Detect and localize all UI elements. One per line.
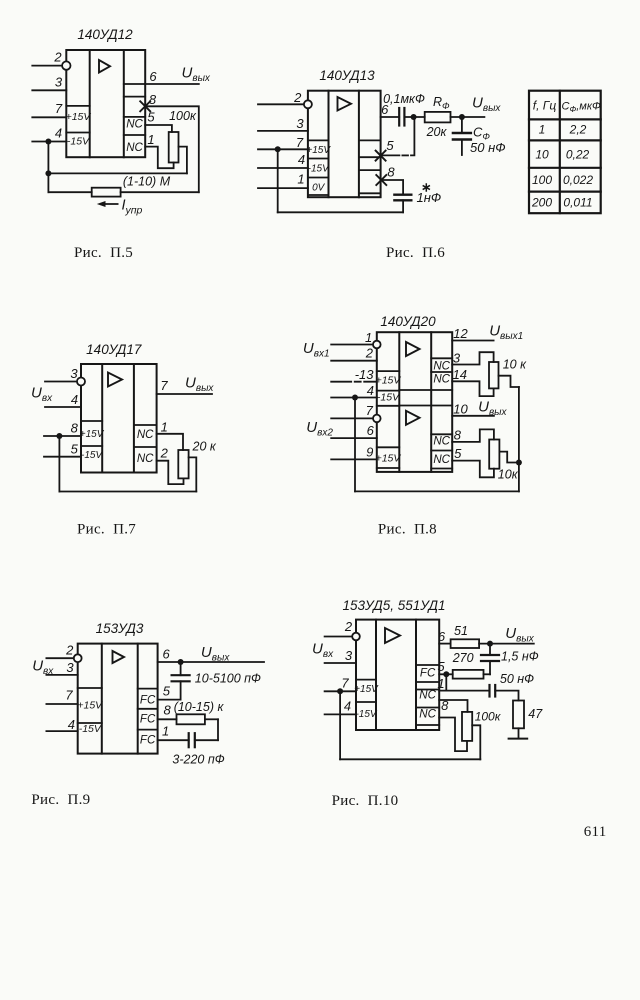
svg-text:3: 3 xyxy=(345,648,353,663)
pin 7 input wire xyxy=(32,101,66,117)
svg-text:10 к: 10 к xyxy=(503,357,527,371)
pin 1 wire xyxy=(437,676,489,691)
+15V box xyxy=(306,140,331,158)
svg-text:10: 10 xyxy=(453,402,468,417)
svg-text:4: 4 xyxy=(68,717,75,732)
table frame xyxy=(529,91,601,214)
svg-text:153УД5, 551УД1: 153УД5, 551УД1 xyxy=(343,598,446,613)
svg-text:1нФ: 1нФ xyxy=(417,190,442,205)
svg-text:2: 2 xyxy=(293,90,302,105)
svg-text:1,5 нФ: 1,5 нФ xyxy=(501,650,539,664)
svg-text:NC: NC xyxy=(433,361,450,373)
svg-text:NC: NC xyxy=(126,119,143,131)
op-amp U3 triangle xyxy=(108,373,122,387)
right rail wire xyxy=(518,387,520,491)
svg-text:-15V: -15V xyxy=(377,392,400,404)
wire pin 5 feedback xyxy=(381,154,400,156)
-15V box xyxy=(377,391,400,406)
svg-text:+15V: +15V xyxy=(66,111,92,123)
resistor (1-10)М xyxy=(48,175,198,197)
capacitor Сф 50нФ xyxy=(453,117,506,155)
wire joining R and C xyxy=(217,719,219,740)
svg-text:5: 5 xyxy=(437,659,445,674)
wire pin 5 to pin 1 xyxy=(445,674,447,690)
svg-text:NC: NC xyxy=(126,142,143,154)
+15V box xyxy=(80,421,105,446)
svg-text:1: 1 xyxy=(539,123,546,137)
wire pin 14 to resistor R1 bottom xyxy=(452,367,493,396)
capacitor 3-220 пФ xyxy=(172,733,224,766)
wiper tap of 100к xyxy=(179,147,187,174)
svg-text:0,011: 0,011 xyxy=(563,196,592,210)
svg-text:4: 4 xyxy=(344,699,351,714)
pin 3 input wire xyxy=(32,75,66,91)
op-amp U5 body xyxy=(78,644,158,754)
junction on pin 4 xyxy=(45,139,51,145)
pin 2 input wire xyxy=(331,346,377,361)
svg-text:6: 6 xyxy=(438,629,446,644)
svg-text:Рис. П.5: Рис. П.5 xyxy=(74,245,133,261)
svg-text:4: 4 xyxy=(367,383,374,398)
svg-text:8: 8 xyxy=(387,165,395,180)
pin 7 input wire xyxy=(325,676,356,692)
pin 8 cross mark xyxy=(376,165,395,186)
wire pin 3 to resistor R1 xyxy=(452,351,493,366)
table row 2 xyxy=(535,148,589,162)
svg-text:2: 2 xyxy=(53,50,62,65)
op-amp U2 triangle xyxy=(338,97,352,111)
junction on pin 6 xyxy=(178,659,184,665)
pin 2 input wire xyxy=(46,643,81,663)
common rail wire xyxy=(48,142,187,193)
junction on rail xyxy=(45,170,51,176)
svg-text:10к: 10к xyxy=(498,468,519,482)
wire Rф to output xyxy=(451,116,485,118)
ground xyxy=(509,728,528,738)
svg-text:Uвых: Uвых xyxy=(182,65,211,85)
pin 8 box xyxy=(359,170,381,193)
junction on right rail xyxy=(516,460,522,466)
op-amp U5 triangle xyxy=(113,651,125,663)
resistor Rф 20к xyxy=(425,95,451,139)
resistor R2 10к xyxy=(489,440,519,482)
+15V box xyxy=(376,371,402,386)
svg-text:+15V: +15V xyxy=(80,429,105,440)
svg-text:140УД12: 140УД12 xyxy=(77,27,133,42)
svg-text:0V: 0V xyxy=(312,183,326,194)
svg-text:7: 7 xyxy=(366,403,374,418)
resistor (10-15)к xyxy=(174,700,225,724)
svg-text:Рис. П.10: Рис. П.10 xyxy=(332,793,399,809)
pin 3 input wire xyxy=(325,648,356,663)
svg-text:NC: NC xyxy=(137,453,154,465)
pin 7 input wire xyxy=(331,403,380,422)
svg-text:50 нФ: 50 нФ xyxy=(500,672,534,686)
svg-text:Рис. П.9: Рис. П.9 xyxy=(31,792,90,808)
op-amp U1 body xyxy=(66,50,145,157)
svg-text:47: 47 xyxy=(528,707,543,721)
svg-text:1: 1 xyxy=(147,132,154,147)
wire pin 8 to resistor R2 xyxy=(452,427,494,442)
svg-text:-13: -13 xyxy=(355,367,375,382)
svg-text:NC: NC xyxy=(419,709,436,721)
common rail wire xyxy=(59,436,196,492)
svg-text:4: 4 xyxy=(71,392,78,407)
common rail wire xyxy=(340,691,480,759)
resistor 47 xyxy=(513,701,543,729)
pin 3 input wire xyxy=(258,116,308,131)
pin 7 input wire xyxy=(258,135,308,150)
wiper tap of 100к xyxy=(472,725,480,759)
pin 6 output wire xyxy=(145,69,199,84)
svg-text:5: 5 xyxy=(386,138,394,153)
svg-text:140УД17: 140УД17 xyxy=(86,342,142,357)
svg-text:Рис. П.6: Рис. П.6 xyxy=(386,245,445,261)
pin 9 input wire xyxy=(331,444,377,459)
pin 2 input wire xyxy=(325,619,360,640)
pin 13 input wire xyxy=(331,367,377,382)
lower +15V box xyxy=(376,447,402,468)
svg-text:NC: NC xyxy=(137,429,154,441)
pin 3 input wire xyxy=(45,366,85,386)
pin 6 output wire xyxy=(381,102,400,117)
wire pin 1 to resistor bottom xyxy=(145,132,173,168)
svg-text:3: 3 xyxy=(55,75,63,90)
pin 4 input wire xyxy=(32,126,66,142)
svg-text:FC: FC xyxy=(140,714,156,726)
svg-text:1: 1 xyxy=(437,676,444,691)
svg-text:5: 5 xyxy=(454,446,462,461)
pin 4 input wire xyxy=(258,152,308,168)
resistor 51 xyxy=(451,624,534,648)
svg-text:10-5100 пФ: 10-5100 пФ xyxy=(195,672,261,686)
svg-text:Рис. П.8: Рис. П.8 xyxy=(378,522,437,538)
+15V box xyxy=(77,688,103,723)
svg-text:0,22: 0,22 xyxy=(566,148,590,162)
svg-text:7: 7 xyxy=(65,688,73,703)
svg-text:3-220 пФ: 3-220 пФ xyxy=(172,753,224,767)
NC boxes upper xyxy=(431,358,452,385)
svg-text:153УД3: 153УД3 xyxy=(96,621,144,636)
svg-text:2: 2 xyxy=(365,346,374,361)
NC boxes lower xyxy=(431,434,452,468)
svg-text:7: 7 xyxy=(160,378,168,393)
svg-text:8: 8 xyxy=(454,427,462,442)
svg-text:140УД13: 140УД13 xyxy=(319,68,375,83)
common rail wire xyxy=(278,149,403,212)
wire cap to Rф xyxy=(404,116,424,118)
wire pin 1 xyxy=(158,724,189,741)
wiper tap of 20к xyxy=(189,457,197,491)
table row 1 xyxy=(539,123,587,137)
pin 7 input wire xyxy=(46,688,77,705)
svg-text:10: 10 xyxy=(535,148,549,162)
resistor R1 10к xyxy=(489,357,527,388)
svg-text:NC: NC xyxy=(433,436,450,448)
svg-text:NC: NC xyxy=(433,454,450,466)
svg-text:2: 2 xyxy=(160,446,169,461)
svg-text:+15V: +15V xyxy=(77,700,103,712)
wiper tap of R1 xyxy=(499,376,519,387)
pin 2 input wire xyxy=(258,90,312,108)
pin 2 input wire xyxy=(32,50,70,70)
svg-text:+15V: +15V xyxy=(354,684,379,695)
svg-text:Uвых1: Uвых1 xyxy=(489,323,523,343)
svg-text:3: 3 xyxy=(66,660,74,675)
pin 8 wire to 100к bottom xyxy=(439,698,467,751)
svg-text:Uвх1: Uвх1 xyxy=(303,340,330,360)
svg-text:RФ: RФ xyxy=(433,95,450,112)
wire pin 5 to resistor R2 bottom xyxy=(452,446,494,477)
svg-text:Uвых: Uвых xyxy=(185,375,214,395)
wire pin 1 to resistor top xyxy=(157,420,183,450)
capacitor 1нФ xyxy=(394,184,441,212)
svg-text:200: 200 xyxy=(531,196,552,210)
pin 1 input wire xyxy=(331,330,380,348)
op-amp U6 body xyxy=(356,620,439,730)
capacitor 1,5нФ xyxy=(481,644,539,675)
pin 8 input wire xyxy=(44,421,81,436)
svg-text:-15V: -15V xyxy=(67,136,90,148)
svg-text:Uвх: Uвх xyxy=(31,385,53,405)
svg-text:5: 5 xyxy=(71,442,79,457)
svg-text:Рис. П.7: Рис. П.7 xyxy=(77,522,136,538)
resistor 20к xyxy=(178,439,217,478)
wire pin 2 to resistor bottom xyxy=(157,446,184,485)
svg-text:2,2: 2,2 xyxy=(569,123,587,137)
wire pin 5 to resistor xyxy=(145,110,172,133)
svg-text:Uвых: Uвых xyxy=(505,625,534,645)
pin 6 output wire xyxy=(438,629,451,644)
svg-text:СФ,мкФ: СФ,мкФ xyxy=(562,101,602,115)
pin 6 output wire xyxy=(158,646,264,662)
svg-text:7: 7 xyxy=(55,101,63,116)
svg-text:5: 5 xyxy=(147,110,155,125)
junction node B xyxy=(459,114,465,120)
svg-text:1: 1 xyxy=(297,172,304,187)
NC boxes xyxy=(134,425,157,465)
pin 7 output wire xyxy=(157,378,212,394)
NC boxes xyxy=(416,690,439,726)
svg-text:-15V: -15V xyxy=(81,450,103,461)
op-amp U4 body xyxy=(377,332,452,472)
svg-text:-15V: -15V xyxy=(308,164,330,175)
junction on output xyxy=(487,641,493,647)
svg-text:8: 8 xyxy=(163,703,171,718)
FC boxes xyxy=(138,689,158,747)
svg-text:2: 2 xyxy=(65,643,74,658)
+15V box xyxy=(66,106,92,133)
pin 5 box xyxy=(359,140,381,157)
svg-text:3: 3 xyxy=(70,366,78,381)
FC box xyxy=(416,665,439,682)
svg-text:1: 1 xyxy=(365,330,372,345)
resistor 270 xyxy=(452,651,490,679)
pin 6 input wire xyxy=(331,423,377,438)
svg-text:+15V: +15V xyxy=(376,453,402,465)
svg-text:6: 6 xyxy=(149,69,157,84)
svg-text:12: 12 xyxy=(453,326,468,341)
pin 5 wire xyxy=(437,659,452,674)
pin 5 cross mark xyxy=(376,138,395,161)
junction node A xyxy=(411,114,417,120)
pin 8 cross mark xyxy=(140,92,157,111)
wire pin 8 to right rail xyxy=(145,106,199,192)
capacitor 0,1мкФ xyxy=(383,92,425,126)
svg-text:100к: 100к xyxy=(169,109,197,123)
svg-text:+15V: +15V xyxy=(376,375,402,387)
svg-text:0,022: 0,022 xyxy=(563,173,593,187)
junction on pin 4 xyxy=(352,395,358,401)
svg-text:14: 14 xyxy=(453,367,467,382)
svg-text:4: 4 xyxy=(298,152,305,167)
svg-text:Uвх2: Uвх2 xyxy=(306,419,333,439)
svg-text:NC: NC xyxy=(419,690,436,702)
svg-text:Uвых: Uвых xyxy=(201,644,230,664)
svg-text:5: 5 xyxy=(163,684,171,699)
pin 4 input wire xyxy=(331,383,377,398)
svg-text:611: 611 xyxy=(584,824,607,840)
pin 4 input wire xyxy=(45,392,81,407)
common rail wire xyxy=(355,398,519,492)
svg-text:6: 6 xyxy=(367,423,375,438)
svg-text:270: 270 xyxy=(452,651,474,665)
svg-text:8: 8 xyxy=(71,421,79,436)
resistor 100к xyxy=(169,109,197,163)
0V box xyxy=(308,183,329,196)
pin 1 input wire xyxy=(258,172,308,189)
op-amp U6 triangle xyxy=(385,628,400,643)
pin 5 input wire xyxy=(44,442,81,457)
svg-text:20к: 20к xyxy=(426,125,448,139)
svg-text:100: 100 xyxy=(532,173,552,187)
capacitor 10-5100 пФ xyxy=(158,662,261,700)
resistor 100к xyxy=(462,710,502,741)
capacitor 50нФ xyxy=(490,672,535,701)
svg-text:1: 1 xyxy=(161,420,168,435)
svg-text:Uвых: Uвых xyxy=(478,399,507,419)
svg-text:140УД20: 140УД20 xyxy=(380,314,436,329)
svg-text:9: 9 xyxy=(366,444,373,459)
svg-text:FC: FC xyxy=(140,695,156,707)
svg-text:7: 7 xyxy=(296,135,304,150)
junction on pin 8 xyxy=(56,433,62,439)
svg-text:0,1мкФ: 0,1мкФ xyxy=(383,92,425,106)
pin 10 output wire xyxy=(452,402,494,417)
op-amp U4 triangle B xyxy=(406,411,420,425)
svg-text:1: 1 xyxy=(162,724,169,739)
svg-text:f, Гц: f, Гц xyxy=(533,99,557,113)
svg-text:FC: FC xyxy=(140,735,156,747)
pin 4 input wire xyxy=(325,699,356,715)
svg-text:FC: FC xyxy=(420,668,436,680)
wiper tap of R2 xyxy=(499,452,519,463)
NC boxes xyxy=(124,84,145,154)
svg-text:6: 6 xyxy=(162,646,170,661)
pin 12 output wire xyxy=(452,326,493,341)
pin 3 input wire xyxy=(46,660,77,675)
svg-text:4: 4 xyxy=(55,126,62,141)
svg-text:100к: 100к xyxy=(475,710,502,724)
op-amp U2 body xyxy=(308,91,381,198)
svg-text:Uвых: Uвых xyxy=(472,95,501,115)
svg-text:7: 7 xyxy=(341,676,349,691)
svg-text:-15V: -15V xyxy=(79,723,102,735)
pin 4 input wire xyxy=(46,717,77,732)
op-amp U4 triangle A xyxy=(406,342,420,356)
svg-text:-15V: -15V xyxy=(355,709,377,720)
svg-text:51: 51 xyxy=(454,624,468,638)
svg-text:Iупр: Iупр xyxy=(122,198,143,217)
junction on pin 5 xyxy=(443,671,449,677)
wire stub to 100к top xyxy=(439,700,467,712)
-15V box xyxy=(308,164,330,178)
svg-text:(10-15) к: (10-15) к xyxy=(174,700,225,714)
junction on pin 7 xyxy=(337,688,343,694)
svg-text:(1-10) М: (1-10) М xyxy=(123,175,171,189)
+15V box xyxy=(354,680,379,702)
middle separator band xyxy=(399,390,452,406)
wire pin 8 xyxy=(158,703,177,720)
table row 4 xyxy=(531,196,593,210)
current arrow Iупр xyxy=(97,198,143,217)
svg-text:3: 3 xyxy=(296,116,304,131)
junction on pin 7 xyxy=(275,146,281,152)
svg-text:8: 8 xyxy=(149,92,157,107)
svg-text:NC: NC xyxy=(433,374,450,386)
svg-text:8: 8 xyxy=(441,698,449,713)
svg-text:2: 2 xyxy=(344,619,353,634)
op-amp U1 triangle xyxy=(99,60,110,73)
wire pin 8 to capacitor xyxy=(381,180,404,194)
svg-text:+15V: +15V xyxy=(306,145,331,156)
table row 3 xyxy=(532,173,593,187)
svg-text:Uвх: Uвх xyxy=(312,641,334,661)
op-amp U3 body xyxy=(81,364,157,473)
svg-text:50 нФ: 50 нФ xyxy=(470,140,506,155)
svg-text:20 к: 20 к xyxy=(192,439,217,453)
svg-text:3: 3 xyxy=(453,351,461,366)
